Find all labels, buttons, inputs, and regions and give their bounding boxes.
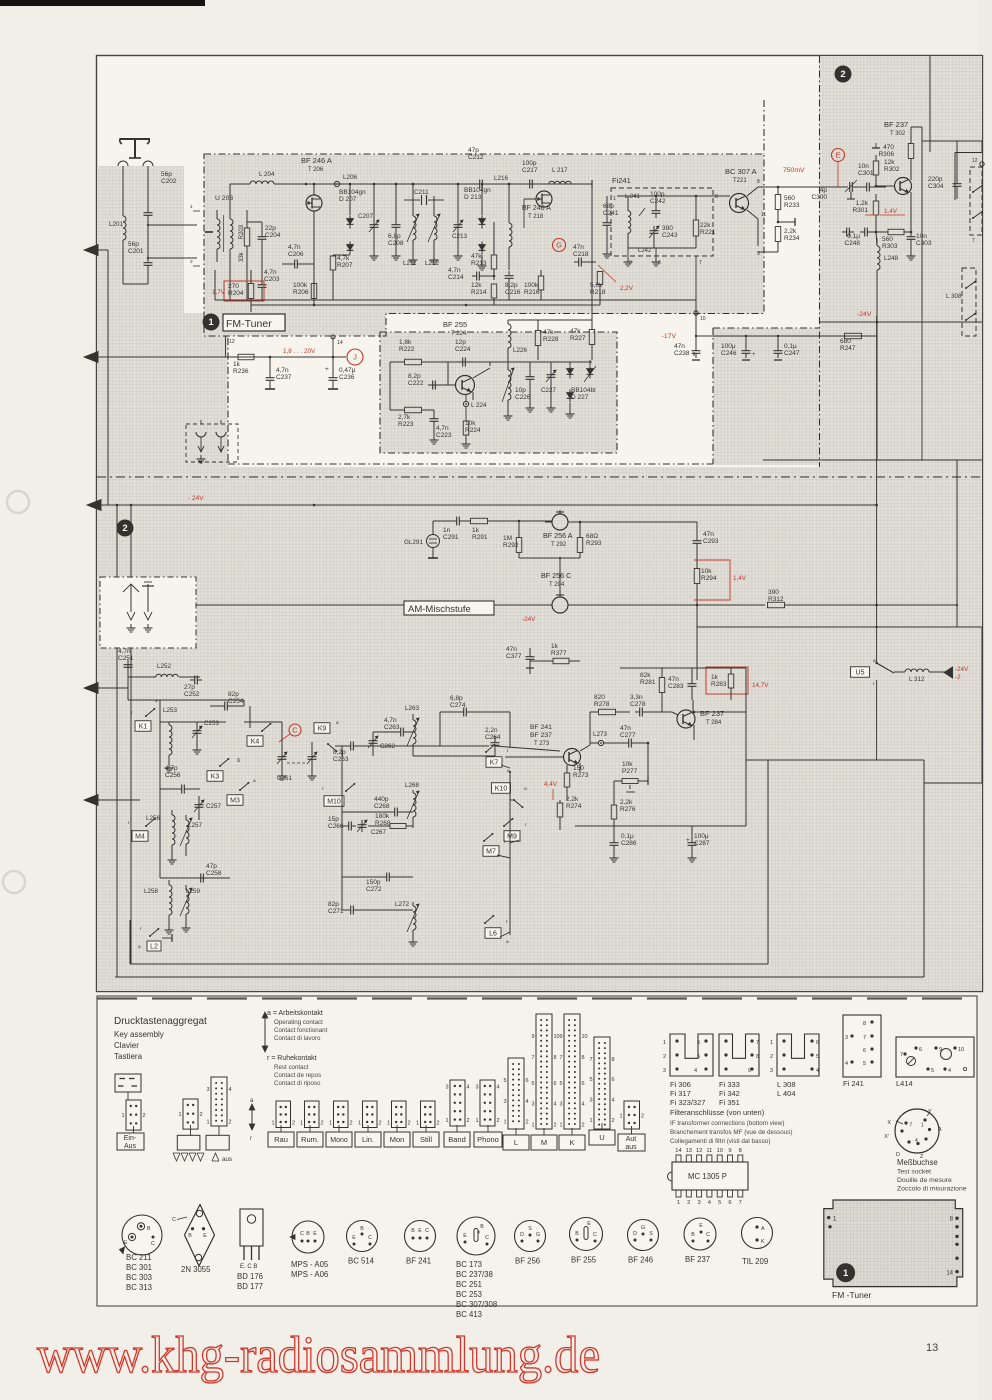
potentiometer P277 10k <box>614 761 648 792</box>
svg-text:4,7n: 4,7n <box>436 425 449 432</box>
svg-text:R203: R203 <box>239 224 245 239</box>
svg-text:Contact de repos: Contact de repos <box>274 1072 321 1079</box>
capacitor C203 4,7n <box>258 269 280 300</box>
pin 12 and 14 marks <box>226 335 343 357</box>
svg-text:C258: C258 <box>206 870 222 877</box>
svg-text:a = Arbeitskontakt: a = Arbeitskontakt <box>267 1010 323 1017</box>
svg-text:390: 390 <box>768 589 779 596</box>
switch K10 <box>492 783 528 808</box>
paper edge shading right <box>978 0 992 1400</box>
svg-text:R204: R204 <box>228 290 244 297</box>
svg-text:4: 4 <box>915 1138 918 1144</box>
wire antenna feed lines <box>123 166 148 216</box>
svg-text:Mon: Mon <box>390 1135 405 1144</box>
switch L2 <box>138 926 172 951</box>
svg-text:P277: P277 <box>622 768 638 775</box>
svg-text:1: 1 <box>531 1123 534 1129</box>
svg-text:47n: 47n <box>620 725 631 732</box>
svg-text:2: 2 <box>840 69 845 80</box>
svg-text:r: r <box>250 1136 252 1142</box>
svg-text:11: 11 <box>706 1148 712 1154</box>
svg-text:Drucktastenaggregat: Drucktastenaggregat <box>114 1016 207 1027</box>
svg-text:Operating contact: Operating contact <box>274 1019 323 1026</box>
transformer U203 <box>205 184 233 300</box>
svg-text:B: B <box>411 1228 415 1234</box>
svg-text:C243: C243 <box>662 232 678 239</box>
ground switch dashed box <box>186 420 238 463</box>
svg-text:1,4V: 1,4V <box>733 575 747 582</box>
svg-text:1: 1 <box>677 1200 680 1206</box>
inductor L216 <box>494 175 512 270</box>
svg-text:G: G <box>641 1225 645 1231</box>
wire -24V feed <box>819 310 982 460</box>
svg-text:B: B <box>360 1226 364 1232</box>
diode GL291 <box>404 521 440 558</box>
svg-text:6: 6 <box>697 1040 700 1046</box>
svg-text:3: 3 <box>206 1087 209 1093</box>
svg-text:BF 237: BF 237 <box>530 732 552 739</box>
svg-text:C252: C252 <box>184 691 200 698</box>
svg-text:K: K <box>569 1138 574 1147</box>
svg-text:L: L <box>514 1138 518 1147</box>
capacitor C246 100u <box>721 335 756 360</box>
svg-text:33k: 33k <box>239 251 245 262</box>
capacitor C241 68p <box>603 196 619 258</box>
svg-text:5: 5 <box>531 1081 534 1087</box>
wire T218 drain vertical <box>591 188 593 330</box>
svg-text:7: 7 <box>589 1057 592 1063</box>
svg-text:15p: 15p <box>328 816 339 823</box>
capacitor C377 47n <box>506 646 535 674</box>
svg-text:3: 3 <box>475 1085 478 1091</box>
svg-text:BC 303: BC 303 <box>126 1273 152 1282</box>
svg-text:BF 246 A: BF 246 A <box>301 156 332 165</box>
svg-text:T 218: T 218 <box>528 214 544 220</box>
svg-text:aus: aus <box>222 1156 232 1163</box>
resistor R283 1k red box <box>706 667 769 700</box>
svg-text:1,8 . . . 20V: 1,8 . . . 20V <box>283 348 316 355</box>
svg-text:4: 4 <box>526 1099 529 1105</box>
svg-text:7: 7 <box>699 260 702 266</box>
resistor R377 1k <box>530 643 580 664</box>
svg-text:GL291: GL291 <box>404 539 423 546</box>
svg-text:Collegamenti di filtri (vist: Collegamenti di filtri (visti dal basso) <box>670 1138 770 1145</box>
svg-text:1: 1 <box>329 1121 332 1127</box>
svg-text:82k: 82k <box>640 672 651 679</box>
connector Aut aus <box>624 1101 640 1129</box>
svg-text:BD 177: BD 177 <box>237 1282 263 1291</box>
svg-text:L 241: L 241 <box>625 194 640 200</box>
resistor R222 1,8k <box>390 339 448 365</box>
svg-text:1: 1 <box>178 1112 181 1118</box>
connector Phono <box>480 1080 495 1126</box>
labels Filteranschluesse <box>670 1108 793 1145</box>
trimmer C253 <box>192 720 220 754</box>
capacitor C201 56p <box>123 220 153 284</box>
svg-text:D 207: D 207 <box>339 196 357 203</box>
svg-text:M3: M3 <box>230 798 240 805</box>
capacitor C263 8,2p <box>333 742 358 764</box>
svg-text:M9: M9 <box>507 834 517 841</box>
svg-text:750mV: 750mV <box>783 167 805 174</box>
resistor R278 820 <box>590 694 630 715</box>
svg-text:4: 4 <box>497 1085 500 1091</box>
svg-text:L211: L211 <box>403 260 417 267</box>
svg-text:3: 3 <box>589 1098 592 1104</box>
svg-text:4: 4 <box>816 1068 819 1074</box>
svg-text:BB104bl: BB104bl <box>571 387 596 394</box>
svg-text:R276: R276 <box>620 806 636 813</box>
svg-text:2,2n: 2,2n <box>485 727 498 734</box>
capacitor C224 12p <box>455 339 490 367</box>
svg-text:2,2V: 2,2V <box>620 285 634 292</box>
svg-text:3: 3 <box>531 1102 534 1108</box>
svg-text:R216: R216 <box>524 289 540 296</box>
svg-text:1: 1 <box>619 1114 622 1120</box>
svg-text:14: 14 <box>337 340 343 346</box>
wire am t273 connections <box>495 742 649 781</box>
svg-text:C293: C293 <box>703 538 719 545</box>
svg-text:22p: 22p <box>265 225 276 232</box>
trimmer C227 <box>541 362 557 412</box>
svg-text:BC 307/308: BC 307/308 <box>456 1300 497 1309</box>
svg-text:1: 1 <box>589 1118 592 1124</box>
capacitor C267 <box>357 820 387 836</box>
switch M9 <box>503 818 527 841</box>
svg-text:5: 5 <box>931 1068 934 1074</box>
label Ein-Aus <box>117 1126 144 1150</box>
svg-text:6: 6 <box>658 260 661 266</box>
switch Ein-Aus dashes box <box>115 1074 141 1100</box>
connector Rau <box>276 1101 291 1128</box>
connector K <box>564 1014 580 1129</box>
svg-text:C248: C248 <box>844 240 860 247</box>
svg-text:12k: 12k <box>884 159 895 166</box>
svg-text:S: S <box>528 1226 532 1232</box>
test socket Messbuchse <box>884 1109 942 1160</box>
package 2N3055 <box>172 1205 214 1275</box>
svg-text:1k: 1k <box>233 361 241 368</box>
connector Fi241 footprint <box>843 1015 881 1077</box>
switch box L308 partial <box>946 268 976 336</box>
svg-text:4: 4 <box>229 1087 232 1093</box>
svg-text:B: B <box>480 1224 484 1230</box>
package BC173 family <box>456 1217 497 1319</box>
svg-text:K4: K4 <box>251 739 260 746</box>
svg-text:68Ω: 68Ω <box>586 533 598 540</box>
inductor L257 variable <box>180 815 203 856</box>
svg-text:E: E <box>352 1235 356 1241</box>
capacitor C214 4,7n <box>448 267 495 281</box>
svg-text:K9: K9 <box>318 726 327 733</box>
capacitor C208 6,8p <box>388 183 404 260</box>
red line 2,2V <box>598 265 634 292</box>
svg-text:C253: C253 <box>204 720 220 727</box>
wire left verticals to bottom <box>116 504 133 977</box>
svg-text:BF 255: BF 255 <box>571 1256 597 1265</box>
svg-text:S: S <box>649 1231 653 1237</box>
svg-text:C204: C204 <box>265 232 281 239</box>
transistor T221 BC307A <box>725 167 770 246</box>
svg-text:Contact fonctionant: Contact fonctionant <box>274 1027 328 1034</box>
connector Rum <box>305 1101 320 1128</box>
svg-text:C202: C202 <box>161 178 177 185</box>
svg-text:L414: L414 <box>896 1079 913 1088</box>
gray region right column <box>819 56 982 991</box>
svg-text:-24V: -24V <box>522 616 536 623</box>
package BF255 <box>570 1218 603 1265</box>
svg-text:47n: 47n <box>674 343 685 350</box>
svg-text:8: 8 <box>715 194 718 200</box>
svg-text:11: 11 <box>761 212 766 218</box>
svg-text:4,7n: 4,7n <box>264 269 277 276</box>
svg-text:7: 7 <box>531 1055 534 1061</box>
trimmer C213 <box>452 184 468 260</box>
svg-text:C212: C212 <box>468 154 484 161</box>
svg-text:2: 2 <box>321 1121 324 1127</box>
svg-text:K1: K1 <box>139 724 148 731</box>
svg-text:8: 8 <box>863 1021 866 1027</box>
transistor T218 BF246A FET <box>522 191 552 228</box>
capacitor C217 100p <box>522 160 538 189</box>
svg-text:440p: 440p <box>374 796 389 803</box>
svg-text:R281: R281 <box>640 679 656 686</box>
svg-text:6: 6 <box>554 1081 557 1087</box>
svg-text:5: 5 <box>697 1054 700 1060</box>
svg-text:R218: R218 <box>590 289 606 296</box>
svg-text:220p: 220p <box>928 176 943 183</box>
svg-text:G: G <box>536 1232 540 1238</box>
svg-text:C213: C213 <box>452 233 468 240</box>
svg-text:1: 1 <box>770 1040 773 1046</box>
svg-text:BF 256 C: BF 256 C <box>541 571 571 580</box>
symbols A aus <box>173 1153 232 1163</box>
svg-text:U 203: U 203 <box>215 195 233 202</box>
wire -24V rail <box>98 504 877 507</box>
svg-text:2: 2 <box>408 1121 411 1127</box>
capacitor C263b 4,7n <box>384 717 408 737</box>
svg-text:T 302: T 302 <box>890 131 906 137</box>
svg-text:9: 9 <box>728 1148 731 1154</box>
svg-text:2: 2 <box>122 523 127 534</box>
left arrow 3 <box>87 500 101 511</box>
measuring point G <box>553 239 566 252</box>
svg-text:56p: 56p <box>161 171 172 178</box>
svg-text:6: 6 <box>582 1081 585 1087</box>
svg-text:R302: R302 <box>884 166 900 173</box>
svg-text:390: 390 <box>662 225 673 232</box>
Fi241 pins <box>624 194 719 300</box>
inductor L241 <box>613 194 645 248</box>
svg-text:2: 2 <box>190 259 193 265</box>
switch K9 <box>314 721 339 752</box>
svg-text:4,7n: 4,7n <box>384 717 397 724</box>
capacitor C247 0,1u <box>774 335 800 360</box>
package BF237 <box>684 1218 716 1250</box>
capacitor C266 15p <box>328 816 356 831</box>
capacitor C272 150p <box>366 873 394 894</box>
wire main top rail <box>274 183 592 186</box>
svg-text:L206: L206 <box>343 174 358 181</box>
svg-text:C247: C247 <box>784 350 800 357</box>
resistor R306 470 <box>878 127 913 176</box>
svg-text:1k: 1k <box>711 674 719 681</box>
svg-text:10n: 10n <box>916 233 927 240</box>
svg-text:3: 3 <box>503 1099 506 1105</box>
svg-text:6,8p: 6,8p <box>388 233 401 240</box>
svg-text:2,2k: 2,2k <box>566 796 579 803</box>
resistor R274 2,2k <box>557 796 582 830</box>
svg-text:C218: C218 <box>573 251 589 258</box>
wire bottom rail box1 <box>215 270 696 312</box>
capacitor C256 4,7p <box>160 765 200 794</box>
svg-text:B: B <box>575 1231 579 1237</box>
inductor L259 variable <box>180 885 201 932</box>
svg-text:13: 13 <box>926 1342 938 1354</box>
svg-text:BC 211: BC 211 <box>126 1253 151 1262</box>
svg-text:10: 10 <box>582 1034 588 1040</box>
svg-text:R234: R234 <box>784 235 800 242</box>
connector Mono <box>334 1101 349 1128</box>
svg-text:L226: L226 <box>513 347 528 354</box>
svg-text:Lin.: Lin. <box>362 1135 374 1144</box>
svg-text:10: 10 <box>716 1148 722 1154</box>
wire right edge verticals <box>697 460 982 783</box>
svg-text:C226: C226 <box>515 394 531 401</box>
resistor R223 2,7k <box>390 362 434 428</box>
svg-text:47n: 47n <box>573 244 584 251</box>
resistor R294 10k with red path <box>694 560 747 604</box>
FM tuner module footprint <box>824 1200 963 1287</box>
svg-text:L273: L273 <box>593 731 608 738</box>
svg-text:L263: L263 <box>405 705 420 712</box>
svg-text:B: B <box>691 1232 695 1238</box>
svg-text:47n: 47n <box>668 676 679 683</box>
svg-text:4,7n: 4,7n <box>448 267 461 274</box>
label Band <box>456 1125 458 1132</box>
legend ruhekontakt <box>267 1055 321 1087</box>
svg-text:8: 8 <box>757 179 760 185</box>
svg-text:8,2p: 8,2p <box>505 282 518 289</box>
IC MC1305P <box>668 1148 749 1206</box>
svg-text:L258: L258 <box>144 888 159 895</box>
pin labels BC307A <box>757 179 766 257</box>
svg-text:3: 3 <box>629 260 632 266</box>
svg-text:9: 9 <box>748 1068 751 1074</box>
capacitor C301 10n <box>858 163 886 192</box>
svg-text:D: D <box>520 1232 524 1238</box>
wire am outer box A <box>130 760 768 964</box>
svg-text:+: + <box>752 352 756 358</box>
label Rau <box>280 1125 282 1132</box>
svg-text:2: 2 <box>497 1118 500 1124</box>
svg-text:MC 1305 P: MC 1305 P <box>688 1172 727 1181</box>
gray region left mid strip <box>97 313 228 467</box>
svg-text:C211: C211 <box>414 189 429 196</box>
gray region lower main <box>97 467 982 991</box>
svg-text:12: 12 <box>696 1148 702 1154</box>
filter Fi306 footprint <box>663 1034 713 1076</box>
svg-text:R247: R247 <box>840 345 856 352</box>
svg-text:10: 10 <box>700 316 706 322</box>
svg-text:D: D <box>633 1231 637 1237</box>
svg-text:7: 7 <box>863 1035 866 1041</box>
package BF241 <box>405 1221 436 1252</box>
transistor T302 BF237 labels <box>884 120 908 137</box>
svg-text:MPS - A05: MPS - A05 <box>291 1260 329 1269</box>
svg-text:Douille de mesure: Douille de mesure <box>897 1177 952 1184</box>
svg-text:BF 256: BF 256 <box>515 1257 540 1266</box>
switch M4 <box>128 818 155 841</box>
capacitor C222 8,2p <box>408 373 455 390</box>
filter Fi333 footprint <box>719 1034 759 1076</box>
svg-text:0,1μ: 0,1μ <box>621 833 634 840</box>
svg-text:L 308: L 308 <box>777 1080 796 1089</box>
red -24V -2 arrow <box>944 666 969 681</box>
capacitor C287 100u <box>686 826 710 862</box>
svg-text:1: 1 <box>271 1121 274 1127</box>
resistor R224 10k <box>462 420 481 448</box>
inductor L272 <box>395 901 419 946</box>
svg-text:1M: 1M <box>503 535 512 542</box>
capacitor C242 100p <box>650 191 666 218</box>
svg-text:R228: R228 <box>543 336 559 343</box>
inductor L252 <box>128 660 200 677</box>
legend a-r arrow <box>249 1098 255 1142</box>
capacitor C291 1n <box>433 517 470 542</box>
svg-text:7: 7 <box>739 1200 742 1206</box>
svg-text:C216: C216 <box>505 289 521 296</box>
svg-text:1: 1 <box>843 1268 849 1279</box>
svg-text:BC 313: BC 313 <box>126 1283 152 1292</box>
capacitor C251 4,7n <box>118 648 134 688</box>
svg-text:4: 4 <box>845 1061 848 1067</box>
svg-text:BB104gn: BB104gn <box>464 187 491 194</box>
svg-text:E: E <box>313 1231 317 1237</box>
svg-text:C246: C246 <box>721 350 737 357</box>
svg-text:BC 251: BC 251 <box>456 1280 482 1289</box>
svg-text:L252: L252 <box>157 663 172 670</box>
svg-text:C: C <box>368 1235 372 1241</box>
svg-text:R377: R377 <box>551 650 567 657</box>
svg-text:100μ: 100μ <box>721 343 736 350</box>
svg-text:C203: C203 <box>264 276 280 283</box>
svg-text:4: 4 <box>467 1085 470 1091</box>
transistor T206 BF246A FET <box>301 156 332 300</box>
connector Band <box>450 1080 465 1126</box>
osc top wire <box>448 320 592 366</box>
svg-text:-24V: -24V <box>857 311 872 318</box>
svg-text:C: C <box>485 1235 489 1241</box>
resistor R228 47k <box>535 320 559 360</box>
svg-text:R273: R273 <box>573 772 589 779</box>
svg-text:Test socket: Test socket <box>897 1169 931 1176</box>
transistor T224 symbol <box>448 362 490 400</box>
resistor R281 82k <box>640 668 665 712</box>
punch hole lower <box>3 871 25 893</box>
varactor D213 BB104gn <box>464 183 491 270</box>
capacitor tap <box>777 218 795 226</box>
resistor R227 47k <box>570 320 595 360</box>
connector L414 footprint <box>896 1037 974 1077</box>
svg-text:1,8k: 1,8k <box>399 339 412 346</box>
inductor L273 <box>590 731 614 746</box>
measuring point C red <box>279 724 301 742</box>
svg-text:Aus: Aus <box>124 1143 137 1150</box>
svg-text:820: 820 <box>594 694 605 701</box>
inductor L201 <box>109 216 126 284</box>
svg-text:IF transformer connections (bo: IF transformer connections (bottom view) <box>670 1120 784 1127</box>
